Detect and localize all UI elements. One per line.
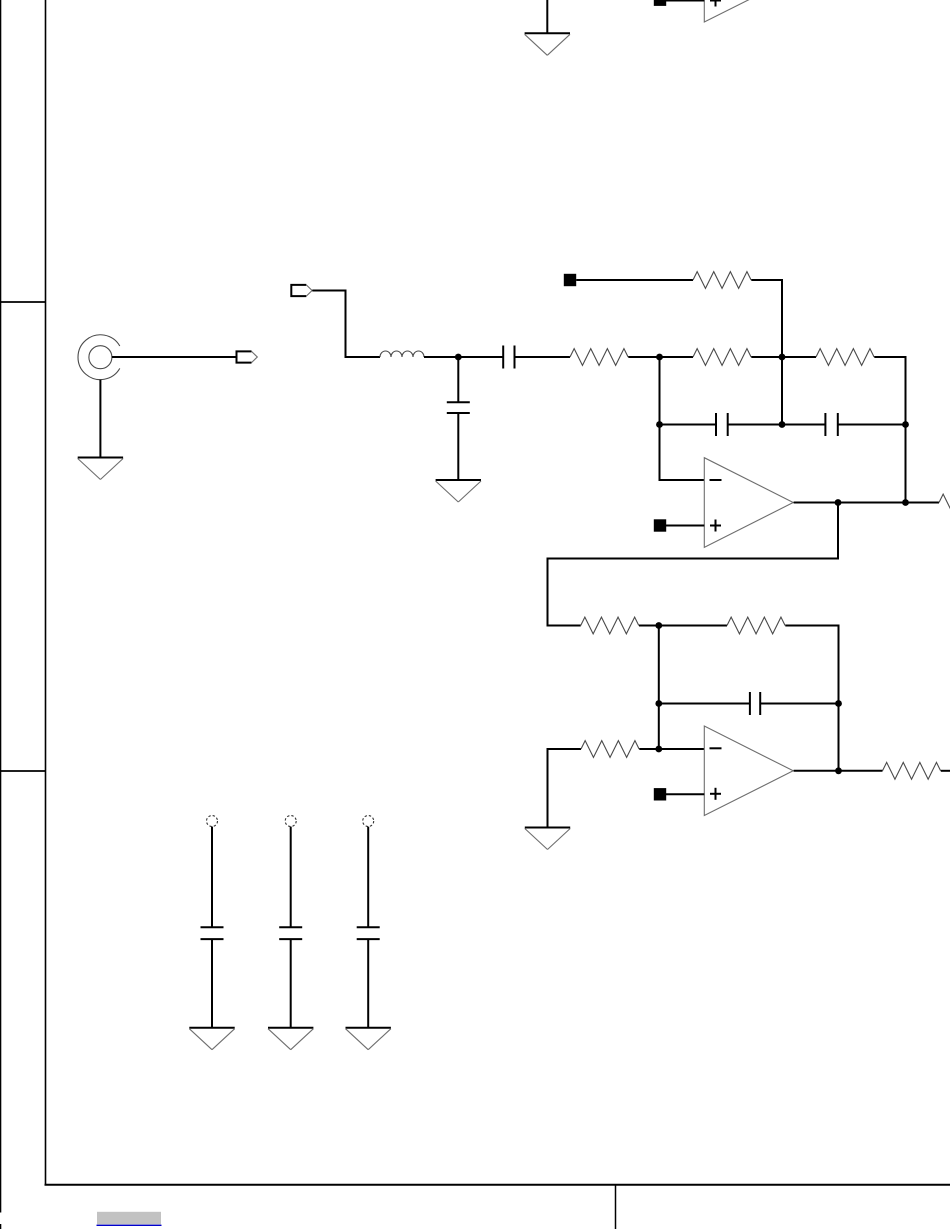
- BNC connector J1 outer shield arc: [78, 335, 120, 380]
- wire U3 +input: [666, 0, 704, 2]
- wire C4 to node F: [838, 424, 906, 426]
- wire corner down to cap row: [905, 356, 907, 425]
- wire ground leg up to R8: [547, 748, 549, 828]
- ground G1 stem: [546, 0, 548, 34]
- wire pin to C6: [211, 827, 213, 928]
- power flag square U2 +input: [654, 788, 666, 800]
- wire corner to inductor: [345, 356, 381, 358]
- wire corner to R6: [547, 625, 581, 627]
- net flag input: [291, 285, 312, 296]
- wire U1 +input: [666, 525, 704, 527]
- pin circle C7: [285, 816, 296, 827]
- wire R1 to node B: [628, 356, 659, 358]
- node E junction: [779, 421, 786, 428]
- capacitor C5: [750, 692, 760, 715]
- capacitor C1 series: [503, 346, 514, 369]
- wire node B to R2: [660, 356, 694, 358]
- node B junction: [656, 354, 663, 361]
- wire U1 output: [794, 502, 838, 504]
- wire C7 to ground: [290, 939, 292, 1028]
- ground G1: [525, 33, 570, 55]
- op-amp U1: [704, 458, 793, 548]
- pin circle C8: [363, 816, 374, 827]
- node J junction: [655, 700, 662, 707]
- wire R7 to corner: [785, 625, 839, 627]
- resistor R5 (cut at right edge): [939, 494, 950, 511]
- wire U2 output: [794, 770, 839, 772]
- pin circle C6: [207, 816, 218, 827]
- wire inverting input U2: [659, 748, 705, 750]
- wire node G to node H: [838, 502, 906, 504]
- wire C5 to node K: [760, 703, 838, 705]
- wire R6 to node I: [639, 625, 659, 627]
- ground G7: [268, 1028, 313, 1050]
- inductor L1: [380, 351, 424, 357]
- wire node C down to node E: [781, 357, 783, 425]
- node M junction: [835, 767, 842, 774]
- capacitor C4: [825, 413, 837, 436]
- resistor R7: [727, 617, 785, 634]
- wire feedback down: [837, 503, 839, 560]
- sheet border left outer line lower stub: [0, 1224, 2, 1229]
- wire R7 corner down: [838, 626, 840, 772]
- node I junction: [655, 622, 662, 629]
- resistor R1: [570, 349, 628, 366]
- node A junction: [455, 354, 462, 361]
- op-amp U2: [704, 726, 793, 816]
- hyperlink underline: [97, 1224, 162, 1226]
- net flag BNC output: [237, 351, 258, 362]
- wire node D to C3: [660, 424, 717, 426]
- node K junction: [835, 700, 842, 707]
- wire node C to R3: [782, 356, 816, 358]
- resistor R3: [816, 349, 874, 366]
- sheet border left outer line: [0, 0, 2, 1213]
- wire Rtop corner down: [781, 279, 783, 357]
- ground G6: [189, 1028, 234, 1050]
- node L junction: [655, 746, 662, 753]
- wire C6 to ground: [211, 939, 213, 1028]
- capacitor C2 shunt: [447, 402, 470, 413]
- wire node F down: [905, 425, 907, 504]
- node G junction: [835, 499, 842, 506]
- wire inverting input U1: [659, 479, 705, 481]
- wire C3 to node E: [728, 424, 782, 426]
- capacitor C7: [279, 927, 302, 939]
- wire C8 to ground: [367, 939, 369, 1028]
- wire flag to corner: [312, 290, 346, 292]
- resistor R2: [693, 349, 751, 366]
- wire node H to R5: [906, 502, 940, 504]
- ground G3: [436, 480, 481, 502]
- zone divider upper: [0, 301, 46, 303]
- ground G8: [346, 1028, 391, 1050]
- wire C2 to ground: [457, 413, 459, 482]
- wire pin to C8: [367, 827, 369, 928]
- wire node M to R9: [839, 770, 883, 772]
- resistor R4 top: [693, 272, 751, 289]
- op-amp U3 (cut off at top): [704, 0, 793, 22]
- capacitor C3: [716, 413, 728, 436]
- zone divider lower: [0, 770, 46, 772]
- resistor R8: [581, 741, 639, 758]
- wire node A to C1: [458, 356, 503, 358]
- capacitor C8: [357, 927, 380, 939]
- power flag square U1 +input: [654, 519, 666, 531]
- wire feedback down left: [547, 559, 549, 627]
- wire BNC pin to flag: [112, 356, 236, 358]
- wire C1 to R1: [515, 356, 571, 358]
- sheet bottom border: [45, 1184, 950, 1186]
- wire corner to R8: [547, 748, 582, 750]
- wire node I to R7: [659, 625, 727, 627]
- wire node E to C4: [782, 424, 825, 426]
- wire BNC shield down: [99, 380, 101, 458]
- node H junction: [902, 499, 909, 506]
- wire R2 to node C: [751, 356, 782, 358]
- node F junction: [902, 421, 909, 428]
- wire R3 to corner: [874, 356, 906, 358]
- wire inductor to node A: [424, 356, 458, 358]
- wire corner down: [345, 290, 347, 359]
- wire node B down: [659, 357, 661, 481]
- wire node J to C5: [659, 703, 750, 705]
- capacitor C6: [201, 927, 224, 939]
- wire node I down: [658, 626, 660, 751]
- wire node A down to C2: [457, 357, 459, 403]
- resistor R9: [883, 762, 941, 779]
- resistor R6: [581, 617, 639, 634]
- wire feedback across: [547, 558, 840, 560]
- wire U2 +input: [666, 793, 704, 795]
- wire square to Rtop: [576, 279, 693, 281]
- wire R9 off right edge: [941, 770, 950, 772]
- wire R8 to node L: [639, 748, 659, 750]
- title block divider: [615, 1185, 617, 1229]
- wire pin to C7: [290, 827, 292, 928]
- ground G4: [525, 828, 570, 850]
- power flag square U3 +input: [654, 0, 666, 6]
- ground G2: [78, 458, 123, 480]
- sheet border zone column line: [45, 0, 47, 1185]
- BNC connector J1 center pin circle: [89, 346, 112, 369]
- node D junction: [656, 421, 663, 428]
- power flag square Rtop: [564, 274, 576, 286]
- hyperlink box: [97, 1212, 161, 1225]
- node C junction: [779, 354, 786, 361]
- wire Rtop to corner: [751, 279, 783, 281]
